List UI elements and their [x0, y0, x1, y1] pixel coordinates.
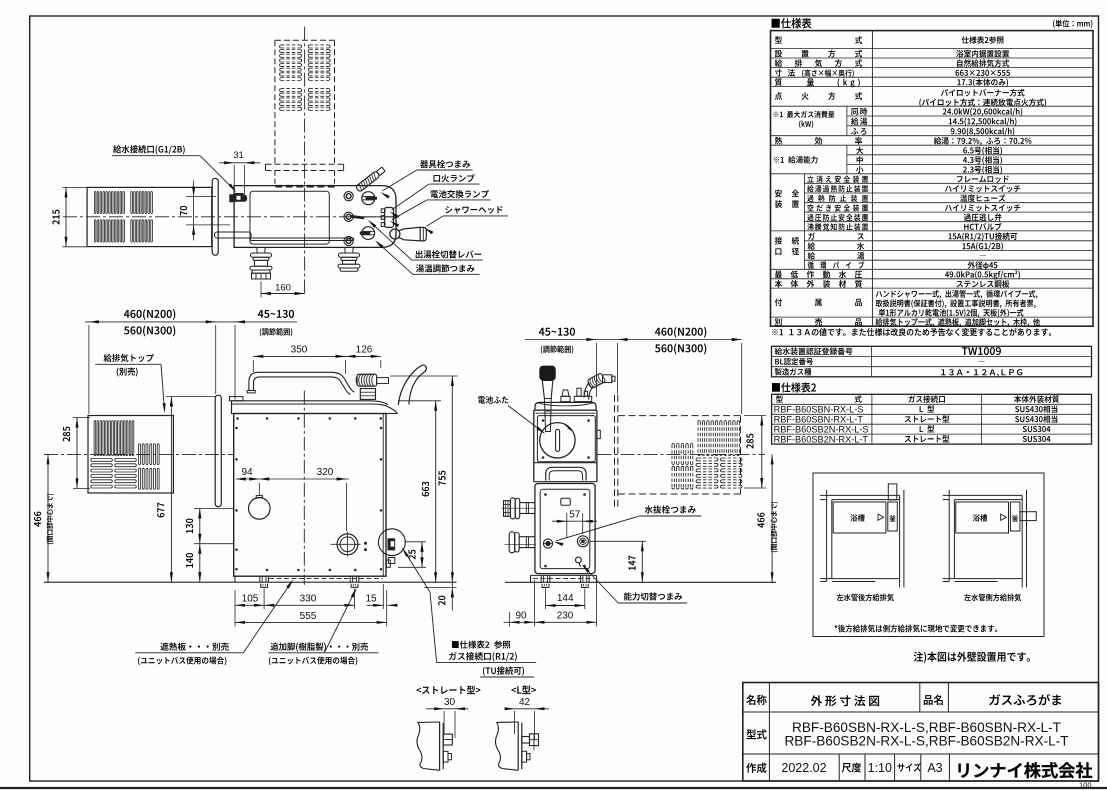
- spec table footnote: [772, 328, 1051, 336]
- title リンナイ株式会社: [958, 762, 1092, 778]
- front spout pipe: [254, 377, 351, 395]
- plan shower head: [390, 229, 400, 239]
- svg-text:1:10: 1:10: [868, 761, 892, 775]
- svg-text:126: 126: [356, 345, 373, 356]
- label 能力切替つまみ: [624, 592, 682, 600]
- svg-text:RBF-B60SB2N-RX-L-S: RBF-B60SB2N-RX-L-S: [774, 424, 869, 434]
- svg-text:31: 31: [233, 150, 244, 161]
- svg-text:94: 94: [241, 467, 253, 478]
- svg-text:15: 15: [365, 594, 377, 605]
- side vent louver horizontal group dashed: [698, 457, 717, 459]
- side left pipe lower: [519, 536, 535, 538]
- install room 1 walls: [820, 494, 900, 496]
- dim 285 front: [76, 418, 78, 489]
- spec table row 寸法: [775, 69, 782, 76]
- front vent louvers horizontal group: [91, 458, 113, 461]
- cert row 給水装置認証登録番号: [775, 348, 853, 355]
- front hose stub pipe: [377, 378, 389, 384]
- install room 2 bathtub 浴槽: [956, 502, 1009, 533]
- spec table row 別売品: [775, 318, 782, 326]
- svg-text:RBF-B60SBN-RX-L-T: RBF-B60SBN-RX-L-T: [774, 415, 864, 425]
- plan flue louvers: [281, 44, 301, 46]
- dim 663: [435, 401, 437, 582]
- front face screws: [236, 417, 239, 420]
- plan water inlet fitting: [229, 193, 247, 202]
- svg-text:A3: A3: [927, 761, 942, 775]
- spec table2 title: [772, 382, 816, 392]
- front top cap: [232, 404, 398, 414]
- dim 94/320: [236, 478, 349, 480]
- plan knob lower 湯温調節: [362, 227, 375, 240]
- front vertical center line: [303, 391, 305, 585]
- dim 285 side: [761, 416, 763, 489]
- svg-text:57: 57: [569, 509, 581, 520]
- svg-text:230: 230: [557, 610, 574, 621]
- side dim ext lines: [595, 343, 597, 397]
- svg-text:30: 30: [444, 697, 456, 708]
- svg-text:160: 160: [275, 282, 291, 293]
- spec table row 点火方式: [775, 92, 782, 100]
- plan pipe boss top: [344, 192, 353, 201]
- side hidden bottom dashed: [533, 578, 594, 580]
- svg-text:RBF-B60SB2N-RX-L-T: RBF-B60SB2N-RX-L-T: [774, 434, 869, 444]
- label 電池ふた: [478, 396, 508, 404]
- detail L lower fitting: [522, 751, 527, 762]
- side top cap: [535, 402, 596, 410]
- side battery lid circle: [540, 423, 575, 458]
- spec table grid: [771, 31, 1094, 327]
- cert row 製造ガス種: [775, 368, 812, 375]
- spec table title: [772, 18, 812, 28]
- detail straight dim 30: [426, 708, 468, 710]
- detail L dim 42: [505, 708, 549, 710]
- side body mid band with handle: [534, 462, 597, 464]
- install room 1 heater 釜: [888, 502, 898, 531]
- title block grid: [743, 683, 1099, 782]
- dims 105/330/15: [235, 604, 354, 606]
- install room 1 flue (rear vent): [888, 484, 897, 500]
- front hidden bottom dashed: [269, 577, 383, 579]
- dim 350/126: [253, 355, 380, 357]
- side upper face panel: [537, 416, 595, 462]
- front horizontal center line: [44, 453, 234, 455]
- plan drain fitting right: [344, 247, 346, 253]
- dim 140: [199, 544, 201, 583]
- side vent louver big group dashed: [697, 422, 699, 455]
- side left pipe upper: [520, 502, 535, 504]
- side battery arrow mark: [567, 427, 572, 432]
- spec table row 付属品: [775, 299, 782, 307]
- detail straight lower fitting: [443, 751, 448, 762]
- title サイズ: [897, 763, 920, 772]
- spec table row 最低作動水圧: [775, 271, 782, 278]
- dim 20: [451, 582, 453, 610]
- plan body long pipe: [251, 238, 354, 241]
- svg-text:350: 350: [291, 345, 308, 356]
- plan pipe boss middle: [344, 212, 353, 221]
- dim 460/560 front: [85, 321, 297, 323]
- side wall dashed lines: [614, 395, 616, 508]
- plan knob upper 器具栓: [362, 192, 375, 205]
- dim 160: [261, 293, 305, 295]
- dim 215: [65, 187, 67, 246]
- front vent louvers small vertical groups: [139, 444, 141, 465]
- side ground line: [505, 581, 776, 583]
- label 遮熱板: [160, 642, 228, 650]
- install diagram box: [813, 473, 1044, 637]
- title 型式: [746, 729, 766, 739]
- title ガスふろがま: [989, 694, 1061, 705]
- plan body outline: [234, 186, 396, 248]
- spec table row 給排気方式: [775, 59, 783, 67]
- side feet: [540, 575, 542, 582]
- front wall flange: [215, 395, 221, 507]
- note 外壁設置用: [914, 652, 1030, 663]
- side capacity knob: [576, 557, 582, 563]
- install room 2 heater 釜: [1010, 502, 1020, 531]
- front lower bracket right: [388, 558, 395, 564]
- svg-text:90: 90: [515, 610, 527, 621]
- plan body left pipe stub: [215, 232, 252, 238]
- title 作成: [746, 763, 766, 773]
- plan vent louvers group2: [131, 192, 133, 214]
- plan drain fitting left: [256, 247, 258, 253]
- spec table row 本体外装材質: [775, 280, 782, 288]
- side drain knob left: [543, 539, 552, 548]
- front hose connector hatched: [356, 374, 377, 386]
- side vent louver small groups dashed: [671, 445, 673, 464]
- side gas lever knob: [539, 366, 556, 381]
- dim 555: [235, 621, 387, 623]
- label 電池交換ランプ: [431, 190, 489, 198]
- label 口火ランプ: [434, 174, 475, 182]
- front ground line: [44, 581, 457, 583]
- label 追加脚: [271, 642, 369, 651]
- plan body inner top plate: [250, 191, 329, 244]
- plan gas cock lever: [355, 166, 385, 192]
- dim 25: [421, 542, 423, 568]
- side shower connector hatched: [587, 373, 606, 389]
- cert table grid: [772, 346, 1092, 377]
- svg-text:105: 105: [242, 594, 259, 605]
- side handle: [546, 467, 586, 480]
- side body lower section: [535, 484, 595, 574]
- detail L gas fitting: [522, 737, 530, 744]
- install room 2 flue (side vent): [1020, 512, 1036, 521]
- plan flue opening dashed thick: [275, 185, 335, 188]
- label 水抜栓つまみ: [645, 505, 696, 513]
- front lid left tab: [230, 397, 244, 401]
- dim 144: [546, 605, 585, 607]
- dim 57: [552, 520, 597, 522]
- side shower hose: [584, 383, 589, 398]
- label 湯温調節つまみ: [416, 264, 474, 272]
- spec table rows 給湯能力: [774, 156, 818, 163]
- front vent cassette: [88, 416, 173, 494]
- label 器具栓つまみ: [420, 160, 470, 168]
- dim 130: [199, 508, 201, 543]
- plan flue collar: [266, 163, 344, 165]
- title 外形寸法図: [811, 695, 822, 706]
- plan selector lever: [351, 215, 364, 220]
- install room 2 walls: [943, 494, 1023, 496]
- svg-text:RBF-B60SB2N-RX-L-S,RBF-B60SB2N: RBF-B60SB2N-RX-L-S,RBF-B60SB2N-RX-L-T: [784, 733, 1068, 748]
- dim 147: [641, 541, 643, 582]
- label 出湯栓切替レバー: [416, 250, 482, 258]
- detail L type label: [511, 685, 536, 694]
- dim 31: [219, 162, 261, 164]
- side lid pilot stub: [562, 390, 569, 396]
- label 給排気トップ: [104, 354, 154, 362]
- label 給水接続口: [113, 145, 185, 154]
- install room 1 label: [837, 594, 894, 602]
- side right edge tab: [597, 430, 600, 438]
- side water drain knob right: [577, 536, 588, 547]
- side lid fitting cluster: [574, 396, 591, 401]
- spec table rows 接続口径: [775, 237, 782, 245]
- dim 70: [193, 180, 195, 240]
- front vent louvers big vertical group: [94, 421, 96, 456]
- spec table rows 安全装置: [775, 190, 782, 198]
- front water inlet circle: [248, 498, 270, 520]
- label シャワーヘッド: [445, 206, 502, 214]
- front shower hanger: [398, 365, 426, 405]
- svg-text:330: 330: [300, 594, 317, 605]
- title 尺度: [842, 763, 861, 773]
- svg-text:RBF-B60SBN-RX-L-S: RBF-B60SBN-RX-L-S: [774, 405, 864, 415]
- plan view vent flue dashed outline: [274, 40, 276, 164]
- side vent hidden outline: [618, 415, 741, 417]
- dim 466 front: [47, 454, 49, 582]
- detail straight gas fitting: [443, 734, 452, 745]
- front body outline: [234, 414, 386, 577]
- detail L body: [495, 722, 518, 770]
- svg-text:2022.02: 2022.02: [781, 761, 826, 775]
- plan wall flange: [212, 178, 218, 255]
- side vent center line: [598, 453, 766, 455]
- spec table2 header: [776, 395, 783, 402]
- spec table2 grid: [772, 394, 1092, 444]
- title 品名: [924, 695, 943, 705]
- install box footnote: [835, 625, 998, 633]
- plan vent louvers group1: [94, 192, 96, 214]
- dim 755: [451, 376, 453, 582]
- spec table row 型式: [775, 36, 782, 43]
- plan view center line vertical: [304, 27, 306, 294]
- side battery lens slot: [556, 429, 560, 451]
- side label plate: [561, 498, 571, 505]
- plan vent cassette: [87, 187, 212, 246]
- detail straight body: [417, 722, 440, 770]
- front dim extension lines top: [88, 325, 90, 414]
- front spout foot: [247, 391, 255, 393]
- spec table row 質量: [775, 78, 782, 86]
- label 仕様表2参照 ガス接続口: [452, 641, 511, 649]
- title 名称: [746, 695, 766, 705]
- dim 45~130 front: [258, 310, 294, 318]
- svg-text:320: 320: [317, 467, 334, 478]
- detail straight type label: [416, 686, 480, 694]
- side lower face panel: [540, 489, 590, 568]
- plan view horizontal center line: [63, 216, 400, 218]
- plan pipe boss bottom: [344, 236, 353, 245]
- dim 677: [170, 397, 172, 583]
- front gas detail circle: [379, 529, 406, 556]
- spec table row 熱効率: [775, 137, 782, 145]
- install room 2 label: [964, 594, 1021, 602]
- side bottom pan: [530, 575, 532, 582]
- svg-text:42: 42: [519, 697, 531, 708]
- spec table rows 最大ガス消費量: [773, 111, 834, 118]
- dim 466 side: [771, 454, 773, 582]
- dim 45~130 side + 460/560 side: [525, 339, 742, 341]
- dim 90/230: [504, 621, 510, 623]
- page bottom edge line: [0, 787, 1107, 789]
- install room 1 bathtub 浴槽: [833, 502, 886, 533]
- spec table row 設置方式: [775, 50, 782, 57]
- plan indicator window: [385, 208, 394, 228]
- front feet: [259, 576, 261, 582]
- cert row BL認定番号: [775, 358, 813, 365]
- front gas inlet circle: [337, 534, 358, 555]
- svg-text:555: 555: [300, 611, 317, 622]
- svg-text:144: 144: [557, 593, 574, 604]
- front fitting under connector: [360, 389, 375, 400]
